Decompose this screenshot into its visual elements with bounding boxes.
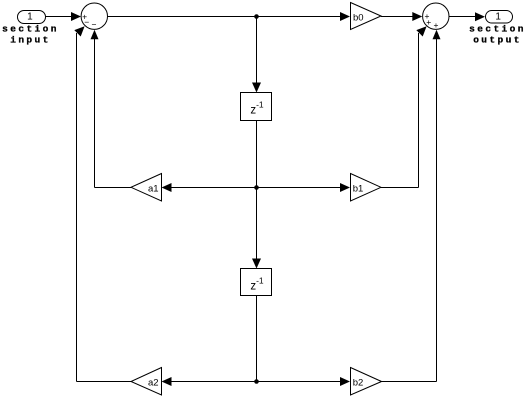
svg-text:b2: b2 xyxy=(353,378,364,389)
svg-text:1: 1 xyxy=(495,12,501,23)
svg-text:−: − xyxy=(84,17,89,27)
svg-text:input: input xyxy=(10,34,51,45)
svg-text:+: + xyxy=(426,17,431,27)
svg-text:+: + xyxy=(434,20,439,30)
svg-text:section: section xyxy=(2,24,59,35)
svg-text:section: section xyxy=(469,24,526,35)
svg-text:a1: a1 xyxy=(148,184,159,195)
svg-text:b1: b1 xyxy=(353,184,364,195)
svg-text:−: − xyxy=(92,20,97,30)
svg-text:a2: a2 xyxy=(148,378,159,389)
svg-text:output: output xyxy=(473,34,522,45)
svg-text:1: 1 xyxy=(27,12,33,23)
svg-text:b0: b0 xyxy=(353,12,364,23)
